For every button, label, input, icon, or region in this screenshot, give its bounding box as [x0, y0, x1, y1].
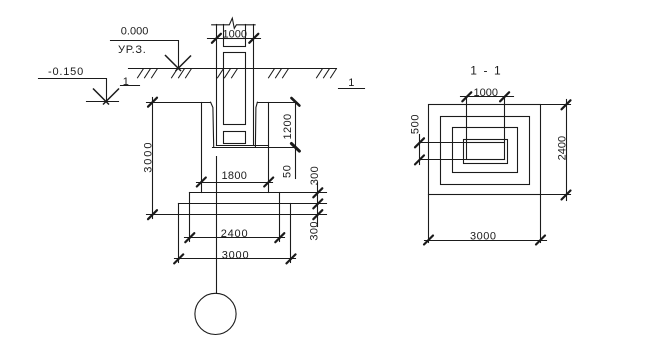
- svg-text:1000: 1000: [223, 29, 247, 41]
- svg-text:1000: 1000: [474, 87, 498, 99]
- svg-text:1200: 1200: [282, 113, 294, 139]
- svg-text:2400: 2400: [557, 136, 569, 160]
- svg-text:0.000: 0.000: [121, 26, 149, 38]
- svg-text:1800: 1800: [222, 170, 248, 182]
- svg-text:300: 300: [309, 221, 321, 240]
- svg-text:3000: 3000: [143, 141, 155, 173]
- svg-text:500: 500: [409, 114, 421, 134]
- svg-text:1 - 1: 1 - 1: [470, 63, 502, 77]
- svg-text:3000: 3000: [222, 249, 250, 261]
- svg-text:1: 1: [348, 77, 354, 89]
- svg-text:УР.З.: УР.З.: [118, 44, 147, 56]
- svg-text:50: 50: [281, 164, 293, 178]
- svg-text:1: 1: [123, 76, 129, 88]
- svg-text:300: 300: [309, 166, 321, 185]
- svg-text:2400: 2400: [221, 228, 249, 240]
- svg-text:-0.150: -0.150: [48, 66, 84, 78]
- svg-text:3000: 3000: [470, 231, 496, 243]
